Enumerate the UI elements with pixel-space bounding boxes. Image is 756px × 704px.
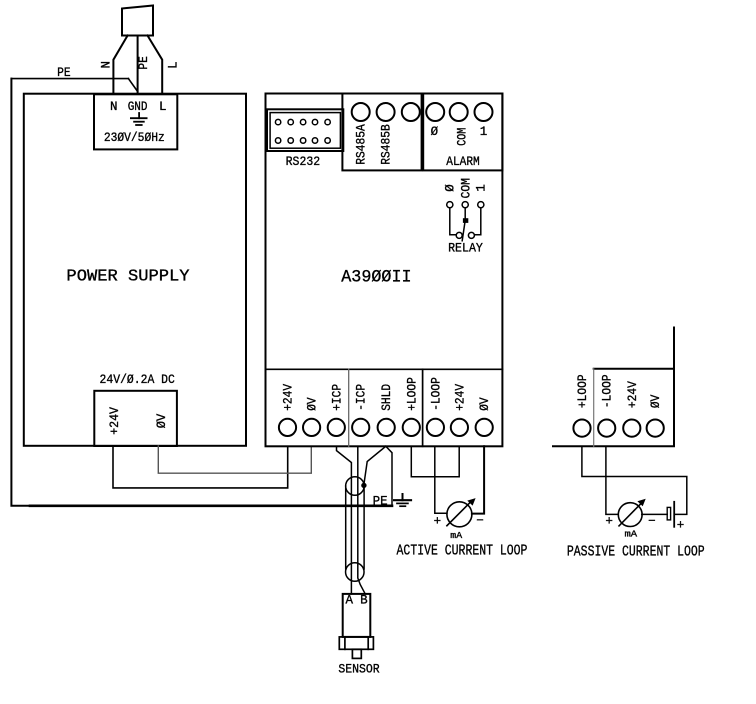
svg-text:+LOOP: +LOOP	[576, 374, 590, 408]
svg-text:SENSOR: SENSOR	[338, 661, 379, 676]
wire N (plug to power supply)	[113, 36, 127, 94]
sensor stub	[352, 649, 361, 658]
svg-text:L: L	[166, 61, 180, 69]
ALARM terminal box	[423, 94, 502, 171]
svg-text:−: −	[476, 514, 484, 528]
RS485 terminal box	[342, 94, 421, 171]
ground symbol GND	[131, 113, 147, 125]
wire L (plug to power supply)	[148, 36, 163, 94]
A3900II bottom terminal strip	[266, 369, 503, 446]
svg-text:-ICP: -ICP	[355, 384, 369, 411]
svg-text:+LOOP: +LOOP	[405, 377, 419, 411]
svg-text:24V/Ø.2A DC: 24V/Ø.2A DC	[100, 373, 175, 387]
wire +24V (power supply to A3900II)	[113, 446, 288, 488]
sensor flange	[339, 637, 373, 649]
terminal block 24V DC output	[94, 391, 177, 446]
svg-text:L: L	[159, 100, 167, 114]
svg-text:ALARM: ALARM	[446, 155, 480, 169]
svg-text:A39ØØII: A39ØØII	[341, 269, 411, 288]
terminal alarm 0	[426, 103, 444, 121]
terminal alarm 1	[475, 103, 493, 121]
wire PE (plug to power supply)	[137, 36, 139, 94]
svg-text:−: −	[648, 515, 656, 529]
svg-text:-LOOP: -LOOP	[429, 377, 443, 411]
svg-text:ØV: ØV	[478, 397, 492, 411]
svg-text:mA: mA	[625, 529, 638, 540]
svg-text:GND: GND	[128, 100, 148, 114]
terminal block 230V (N GND L)	[94, 94, 177, 149]
svg-text:RS485B: RS485B	[380, 124, 394, 165]
svg-text:Ø: Ø	[431, 125, 439, 139]
A3900II main box	[266, 94, 503, 447]
terminal +24V (passive)	[623, 420, 640, 437]
svg-text:1: 1	[480, 125, 488, 139]
RS232 pins row 1	[275, 119, 330, 124]
svg-text:+24V: +24V	[626, 381, 640, 408]
wire 0V to meter (active)	[472, 446, 484, 513]
terminal -LOOP	[427, 419, 444, 436]
svg-text:23ØV/5ØHz: 23ØV/5ØHz	[104, 131, 165, 145]
svg-text:PE: PE	[373, 495, 388, 509]
relay K1 contact pins	[447, 202, 484, 208]
svg-text:COM: COM	[459, 178, 473, 198]
svg-text:-LOOP: -LOOP	[601, 374, 615, 408]
passive loop box	[553, 328, 674, 447]
terminal +ICP	[328, 419, 345, 436]
cable shield outer lines	[346, 486, 364, 569]
svg-text:ØV: ØV	[306, 397, 320, 411]
svg-text:+24V: +24V	[453, 383, 467, 410]
RS232 connector J1	[267, 109, 343, 151]
svg-text:RS232: RS232	[286, 154, 321, 169]
battery B1	[667, 502, 674, 527]
relay junction dot	[463, 218, 468, 223]
svg-text:+: +	[677, 518, 685, 532]
wire -ICP (to sensor conductor B)	[358, 446, 365, 594]
svg-text:SHLD: SHLD	[380, 384, 394, 411]
terminal -ICP	[352, 419, 369, 436]
svg-text:mA: mA	[450, 530, 462, 541]
svg-text:N: N	[110, 100, 118, 114]
svg-text:ACTIVE CURRENT LOOP: ACTIVE CURRENT LOOP	[397, 543, 528, 560]
meter M2 (mA, passive loop)	[618, 499, 645, 527]
svg-text:PE: PE	[57, 66, 71, 80]
relay wire 0	[450, 208, 456, 235]
wire SHLD (to cable shield)	[364, 446, 386, 485]
wire +ICP (to sensor conductor A)	[337, 446, 352, 594]
terminal +LOOP (passive)	[573, 420, 590, 437]
terminal circles of strip	[279, 419, 493, 436]
ground symbol PE	[394, 494, 411, 506]
svg-text:PE: PE	[137, 56, 151, 70]
terminal alarm COM	[450, 103, 468, 121]
svg-text:N: N	[100, 61, 114, 69]
cable shield top loop	[346, 477, 365, 496]
svg-text:Ø: Ø	[444, 184, 458, 192]
terminal spare	[402, 103, 420, 121]
svg-text:+ICP: +ICP	[330, 384, 344, 411]
wire 0V (power supply to A3900II)	[158, 446, 311, 473]
svg-text:RELAY: RELAY	[448, 242, 483, 256]
relay contact circles	[456, 232, 474, 238]
terminal RS485B	[377, 103, 395, 121]
svg-text:B: B	[360, 593, 368, 607]
wire +LOOP to battery + (passive)	[582, 446, 687, 514]
svg-text:RS485A: RS485A	[355, 124, 369, 165]
terminal +24V b	[451, 419, 468, 436]
svg-text:POWER SUPPLY: POWER SUPPLY	[66, 266, 189, 285]
svg-text:COM: COM	[455, 128, 469, 146]
wire meter - to battery (passive)	[642, 513, 667, 515]
terminal 0V	[303, 419, 320, 436]
svg-text:ØV: ØV	[155, 413, 169, 428]
RS232 pins row 2	[275, 138, 330, 143]
svg-text:+24V: +24V	[108, 407, 122, 435]
terminal RS485A	[352, 103, 370, 121]
wire -LOOP to meter (active)	[435, 446, 447, 513]
sensor body	[343, 594, 371, 637]
svg-text:+: +	[605, 515, 613, 529]
terminal 0V (passive)	[647, 420, 664, 437]
mains plug P1	[122, 6, 153, 36]
terminal +LOOP	[403, 419, 420, 436]
svg-text:PASSIVE CURRENT LOOP: PASSIVE CURRENT LOOP	[567, 543, 705, 560]
relay wire COM	[464, 208, 466, 221]
svg-text:1: 1	[475, 184, 489, 192]
terminal SHLD	[378, 419, 395, 436]
terminal +24V	[279, 419, 296, 436]
svg-text:+24V: +24V	[282, 383, 296, 410]
svg-text:A: A	[346, 593, 354, 607]
relay switch arm	[462, 220, 465, 240]
terminal 0V b	[476, 419, 493, 436]
meter M1 (mA, active loop)	[447, 498, 476, 527]
cable shield bottom loop	[346, 563, 365, 582]
terminal -LOOP (passive)	[598, 420, 615, 437]
relay wire 1	[475, 208, 481, 235]
power supply box	[24, 94, 246, 446]
wire PE (protective earth run to sensor shield ground)	[11, 79, 392, 506]
svg-text:+: +	[434, 515, 442, 529]
wire PE (shield to earth run)	[386, 446, 392, 506]
wire -LOOP to meter + (passive)	[606, 446, 618, 514]
shield junction dot	[361, 483, 366, 488]
svg-text:ØV: ØV	[649, 394, 663, 408]
wire +LOOP (active loop)	[411, 446, 459, 476]
terminal strip divider	[348, 369, 350, 446]
